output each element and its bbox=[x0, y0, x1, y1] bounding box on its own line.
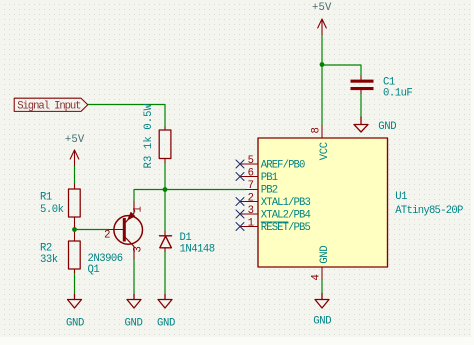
svg-text:2: 2 bbox=[104, 230, 110, 242]
svg-text:2: 2 bbox=[248, 193, 254, 205]
svg-text:PB1: PB1 bbox=[261, 172, 278, 184]
svg-text:5.0k: 5.0k bbox=[40, 204, 64, 216]
svg-text:+5V: +5V bbox=[312, 2, 332, 14]
svg-text:D1: D1 bbox=[180, 232, 192, 244]
svg-text:1: 1 bbox=[133, 206, 145, 212]
svg-text:RESET/PB5: RESET/PB5 bbox=[261, 222, 311, 234]
svg-text:33k: 33k bbox=[40, 254, 58, 266]
svg-text:5: 5 bbox=[248, 155, 254, 167]
svg-text:R2: R2 bbox=[40, 243, 52, 255]
svg-text:R3 1k 0.5W: R3 1k 0.5W bbox=[143, 103, 155, 168]
svg-text:6: 6 bbox=[248, 168, 254, 180]
svg-text:PB2: PB2 bbox=[261, 185, 278, 197]
svg-text:1N4148: 1N4148 bbox=[180, 244, 215, 256]
svg-text:1: 1 bbox=[248, 218, 254, 230]
svg-text:Signal Input: Signal Input bbox=[17, 100, 81, 112]
svg-text:XTAL1/PB3: XTAL1/PB3 bbox=[261, 197, 311, 209]
svg-text:GND: GND bbox=[125, 318, 143, 330]
svg-text:GND: GND bbox=[319, 246, 331, 264]
svg-text:U1: U1 bbox=[395, 191, 407, 203]
svg-text:3: 3 bbox=[133, 246, 145, 252]
svg-text:+5V: +5V bbox=[65, 134, 85, 146]
svg-text:0.1uF: 0.1uF bbox=[383, 88, 412, 100]
svg-text:ATtiny85-20P: ATtiny85-20P bbox=[395, 205, 463, 217]
svg-text:GND: GND bbox=[313, 315, 331, 327]
svg-text:4: 4 bbox=[311, 274, 323, 280]
svg-text:Q1: Q1 bbox=[88, 264, 100, 276]
svg-text:XTAL2/PB4: XTAL2/PB4 bbox=[261, 210, 311, 222]
svg-text:3: 3 bbox=[248, 205, 254, 217]
svg-text:VCC: VCC bbox=[319, 142, 331, 160]
svg-text:GND: GND bbox=[378, 121, 396, 133]
svg-text:AREF/PB0: AREF/PB0 bbox=[261, 160, 305, 172]
svg-text:7: 7 bbox=[248, 180, 254, 192]
svg-text:GND: GND bbox=[66, 318, 84, 330]
svg-text:GND: GND bbox=[157, 318, 175, 330]
svg-text:8: 8 bbox=[311, 127, 323, 133]
svg-text:R1: R1 bbox=[40, 192, 52, 204]
